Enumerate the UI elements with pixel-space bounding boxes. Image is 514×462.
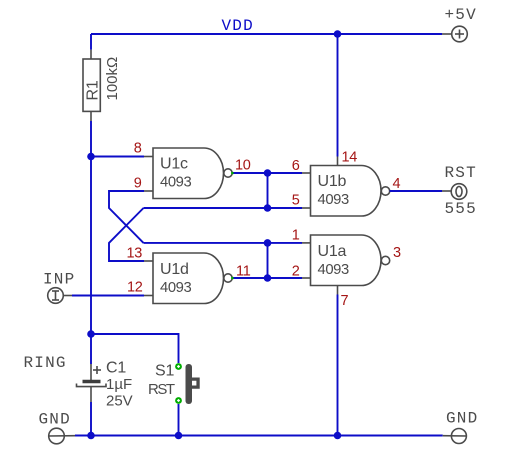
svg-text:U1b: U1b: [318, 173, 347, 190]
switch S1: [175, 363, 200, 404]
svg-text:GND: GND: [446, 410, 478, 428]
ground terminal GND right: [443, 429, 467, 444]
wire U1d out: [232, 277, 267, 279]
svg-text:1: 1: [292, 228, 300, 244]
svg-text:3: 3: [393, 245, 401, 261]
svg-text:U1d: U1d: [160, 261, 189, 278]
junction C1/rail: [87, 432, 95, 440]
wire U1c out to column: [232, 172, 302, 174]
wire left rail mid: [90, 121, 92, 334]
svg-text:4093: 4093: [160, 175, 191, 191]
wire cross upper: [109, 208, 144, 261]
svg-text:1µF: 1µF: [106, 376, 132, 393]
junction out11/col: [264, 274, 272, 282]
wire S1 to rail: [178, 404, 180, 436]
svg-text:U1c: U1c: [160, 156, 188, 173]
op-amp U1a (NAND gate): [302, 235, 390, 286]
terminal INP: [48, 288, 72, 304]
svg-text:4093: 4093: [318, 192, 349, 208]
resistor R1: [83, 50, 100, 121]
wire pin8: [91, 156, 144, 158]
junction node pin8 branch: [87, 153, 95, 161]
wire left rail upper: [90, 34, 92, 50]
svg-text:U1a: U1a: [318, 243, 347, 260]
junction pin5/col: [264, 204, 272, 212]
svg-text:R1: R1: [85, 80, 102, 100]
wire GND rail bottom: [75, 435, 443, 437]
svg-text:RST: RST: [445, 164, 477, 182]
wire latch upper horizontal: [144, 207, 303, 209]
wire U1b out to RST: [390, 190, 442, 192]
wire column seg2: [267, 243, 269, 278]
svg-text:6: 6: [292, 158, 300, 174]
svg-text:C1: C1: [106, 360, 126, 377]
svg-text:4093: 4093: [160, 280, 191, 296]
svg-text:VDD: VDD: [222, 17, 254, 35]
terminal RST 555: [442, 184, 467, 200]
op-amp U1d (NAND gate): [144, 253, 232, 304]
wire C1 to rail: [90, 402, 92, 436]
wire INP to pin12: [72, 295, 144, 297]
wire pin14 vertical: [337, 34, 339, 166]
svg-text:RING: RING: [24, 354, 67, 372]
svg-text:GND: GND: [39, 411, 71, 429]
junction S1/rail: [175, 432, 183, 440]
op-amp U1b (NAND gate): [302, 166, 390, 217]
svg-text:13: 13: [126, 246, 142, 262]
svg-text:9: 9: [134, 176, 142, 192]
svg-text:8: 8: [134, 141, 142, 157]
svg-text:INP: INP: [43, 271, 75, 289]
svg-text:RST: RST: [148, 381, 175, 398]
node green pin dot U1c out: [231, 172, 233, 174]
svg-text:25V: 25V: [106, 393, 133, 410]
wire RING branch to S1: [91, 334, 179, 363]
junction out10/col: [264, 169, 272, 177]
junction RING node: [87, 330, 95, 338]
svg-text:4093: 4093: [318, 262, 349, 278]
svg-text:12: 12: [127, 280, 143, 296]
junction pin1/col: [264, 239, 272, 247]
wire pin7 vertical: [337, 286, 339, 436]
svg-text:S1: S1: [155, 363, 174, 380]
svg-text:14: 14: [342, 150, 358, 166]
op-amp U1c (NAND gate): [144, 148, 232, 199]
wire pin9 routing: [109, 191, 144, 243]
svg-text:5: 5: [292, 193, 300, 209]
svg-text:100kΩ: 100kΩ: [104, 57, 121, 101]
node green pin dot U1d out: [231, 277, 233, 279]
wire column seg1: [267, 173, 269, 208]
junction pin7/rail: [334, 432, 342, 440]
svg-text:4: 4: [393, 176, 401, 192]
svg-text:+5V: +5V: [445, 6, 477, 24]
svg-text:2: 2: [292, 264, 300, 280]
terminal +5V: [442, 26, 467, 42]
ground terminal GND left: [49, 428, 76, 444]
svg-text:555: 555: [445, 200, 477, 218]
junction VDD/pin14: [334, 30, 342, 38]
wire latch lower horizontal: [144, 242, 303, 244]
wire VDD rail top: [91, 33, 442, 35]
capacitor C1: [77, 364, 107, 402]
svg-text:10: 10: [235, 158, 251, 174]
svg-text:7: 7: [341, 293, 349, 309]
wire out11 to pin2: [268, 277, 303, 279]
